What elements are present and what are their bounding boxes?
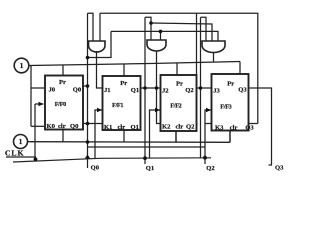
flip-flop FF0 box xyxy=(45,76,83,130)
wire Q0 to K3 line y147 xyxy=(88,146,206,148)
flip-flop FF1 box xyxy=(103,76,141,130)
junction dot Q0bar K1 xyxy=(86,122,90,126)
wire K3 input xyxy=(205,123,212,125)
wire clr riser FF3 xyxy=(229,131,231,143)
junction dot Q0 CLK xyxy=(85,155,90,159)
arrow clock FF2 xyxy=(155,108,160,112)
wire K0 input xyxy=(31,125,45,127)
svg-text:Q3: Q3 xyxy=(275,164,284,171)
wire clock input FF0 xyxy=(35,103,44,105)
wire Q0 terminal stub xyxy=(87,159,89,168)
wire gate U1 right input riser xyxy=(99,13,101,41)
junction dot gate U2 output J2 xyxy=(155,86,159,90)
junction dot Q0 clr cross xyxy=(86,140,90,144)
flip-flop FF2 box xyxy=(161,75,197,131)
svg-text:Pr: Pr xyxy=(176,80,183,87)
node source 1 (top-left logic-high circle) xyxy=(14,58,29,73)
wire CLK label stub xyxy=(6,156,36,158)
wire Q2 terminal stub xyxy=(204,158,206,164)
wire Q1 bus y23 xyxy=(151,23,212,41)
wire Q1 to J2 xyxy=(141,87,161,89)
arrow clock FF0 xyxy=(39,102,44,106)
svg-text:J1: J1 xyxy=(104,87,111,94)
wire Q1 terminal drop xyxy=(144,88,146,164)
svg-text:K0: K0 xyxy=(47,123,56,130)
svg-text:Pr: Pr xyxy=(120,80,127,87)
svg-text:F/F2: F/F2 xyxy=(170,103,181,110)
svg-text:F/F0: F/F0 xyxy=(55,101,66,108)
node source 1 (bottom-left clear circle) xyxy=(14,135,28,149)
junction dot Q2 CLK xyxy=(203,156,207,160)
svg-text:Q3: Q3 xyxy=(238,87,247,94)
svg-text:clr: clr xyxy=(176,124,184,131)
wire Pr drop FF0 xyxy=(62,65,64,76)
wire clr riser FF2 xyxy=(175,131,177,142)
wire Q2 riser xyxy=(200,17,202,88)
wire gate U1 output to J1 xyxy=(97,51,103,88)
svg-text:Q2: Q2 xyxy=(185,87,194,94)
junction dot Q1 CLK xyxy=(143,156,147,160)
wire Q0 distribution vertical xyxy=(87,13,89,158)
svg-text:Q3: Q3 xyxy=(245,125,254,132)
wire Q0 output stub xyxy=(83,85,88,87)
wire Q3bar feedback top bus xyxy=(100,13,258,123)
wire gate U2 output to J2 K2 xyxy=(157,51,161,124)
wire Q0 staple top to gate A xyxy=(88,13,94,41)
wire Q0 bus y31 xyxy=(111,31,218,41)
wire Q2 staple top to gate C xyxy=(201,17,207,41)
svg-text:1: 1 xyxy=(20,61,24,70)
wire clr riser FF1 xyxy=(123,130,125,142)
svg-text:Q0: Q0 xyxy=(70,123,79,130)
svg-text:J0: J0 xyxy=(49,86,56,93)
junction dot Q2 pin xyxy=(199,86,203,90)
svg-text:F/F1: F/F1 xyxy=(112,102,123,109)
svg-text:Q0: Q0 xyxy=(91,164,100,171)
wire clr bus xyxy=(28,141,231,144)
svg-text:Q2: Q2 xyxy=(186,124,195,131)
wire Pr drop FF1 xyxy=(123,64,125,76)
wire clock riser FF2 xyxy=(150,110,161,158)
svg-text:K2: K2 xyxy=(162,124,171,131)
svg-text:Q1: Q1 xyxy=(146,165,154,172)
and-gate U3 xyxy=(202,41,225,53)
wire Pr bus from source 1 xyxy=(29,62,240,66)
wire clr riser FF0 xyxy=(62,130,64,143)
and-gate U2 xyxy=(147,40,166,51)
svg-text:K3: K3 xyxy=(215,125,224,132)
wire top bus drop to FF2 corner xyxy=(196,13,198,75)
wire Pr drop FF3 xyxy=(239,62,241,75)
arrow clock FF1 xyxy=(97,108,102,112)
junction dot Q0 y31 gate B xyxy=(159,30,163,34)
wire Q2 drop below xyxy=(200,88,202,158)
junction dot CLK FF0 xyxy=(34,157,38,161)
junction dot Q1 pin xyxy=(143,86,147,90)
wire Q3bar stub xyxy=(249,123,258,125)
svg-text:CLK: CLK xyxy=(5,148,25,157)
junction dot Q0 pin xyxy=(86,84,90,88)
svg-text:Q2: Q2 xyxy=(206,165,215,172)
svg-text:Q0: Q0 xyxy=(73,86,82,93)
svg-text:F/F3: F/F3 xyxy=(220,104,231,111)
svg-text:clr: clr xyxy=(118,124,126,131)
wire gate U3 output xyxy=(213,52,215,62)
svg-text:Q1: Q1 xyxy=(131,87,139,94)
wire clock riser FF1 xyxy=(95,110,103,158)
svg-text:K1: K1 xyxy=(104,124,112,131)
wire J0 input xyxy=(31,87,45,89)
wire J0 K0 feed vertical xyxy=(30,65,32,126)
wire Q0bar to K1 xyxy=(83,123,103,125)
svg-text:J3: J3 xyxy=(213,88,220,95)
svg-text:clr: clr xyxy=(230,125,238,132)
svg-text:Q1: Q1 xyxy=(131,124,139,131)
wire CLK bus xyxy=(13,158,211,162)
svg-text:Pr: Pr xyxy=(227,81,234,88)
wire clock riser FF3 xyxy=(205,110,212,158)
wire gate B right input xyxy=(160,31,162,40)
flip-flop FF3 box xyxy=(212,74,249,131)
junction dot Q0 y57 xyxy=(86,56,90,60)
svg-text:J2: J2 xyxy=(162,88,169,95)
wire Q0 tap horizontal y57 xyxy=(88,31,112,57)
wire Pr drop FF2 xyxy=(176,63,178,75)
wire Q1 staple top to gate B xyxy=(145,17,151,40)
wire Q2 to J3 xyxy=(197,87,212,89)
wire Q3 output to terminal xyxy=(249,88,272,165)
junction dot Q1 y23 xyxy=(149,21,153,25)
wire clock riser FF0 xyxy=(34,104,36,162)
and-gate U1 xyxy=(89,41,106,52)
svg-text:1: 1 xyxy=(19,137,23,146)
arrow clock FF3 xyxy=(206,108,211,112)
svg-text:clr: clr xyxy=(58,123,66,130)
svg-text:Pr: Pr xyxy=(59,79,66,86)
wire Q1 riser xyxy=(144,17,146,88)
